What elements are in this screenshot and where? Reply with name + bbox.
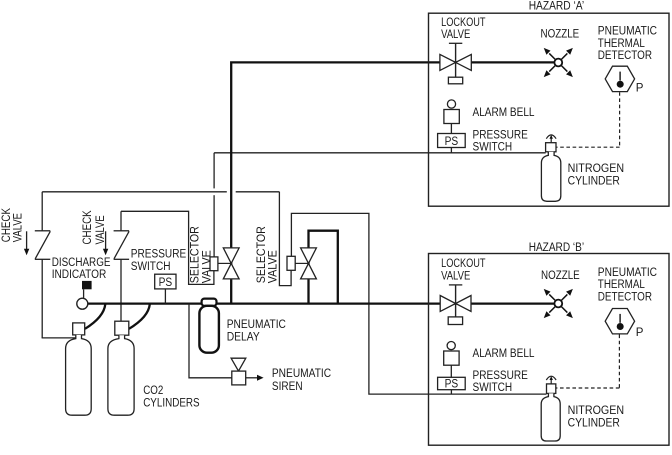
svg-text:THERMAL: THERMAL	[598, 38, 646, 50]
svg-text:ALARM BELL: ALARM BELL	[473, 348, 536, 360]
svg-text:P: P	[636, 327, 644, 339]
alarm bell B	[447, 342, 455, 350]
svg-text:HAZARD ‘A’: HAZARD ‘A’	[529, 0, 584, 12]
wire PS A stem	[450, 148, 452, 153]
wire bell A to PS A	[450, 124, 452, 134]
selector valve 1 actuator	[210, 257, 218, 271]
svg-text:VALVE: VALVE	[12, 213, 24, 242]
lockout valve B stem	[455, 285, 457, 317]
svg-text:PNEUMATIC: PNEUMATIC	[598, 26, 657, 38]
pipe main manifold y=303.6	[88, 302, 555, 304]
svg-text:DETECTOR: DETECTOR	[598, 50, 652, 62]
svg-text:DISCHARGE: DISCHARGE	[52, 257, 111, 269]
svg-text:SIREN: SIREN	[272, 381, 303, 393]
wire top header line y=192 (check valve 1 to selector valve 2 pilot, with hop gaps)	[42, 191, 227, 193]
lockout valve A stem	[455, 43, 457, 77]
svg-text:PRESSURE: PRESSURE	[473, 130, 529, 142]
nitrogen cylinder B release arrow	[546, 376, 556, 384]
svg-text:CYLINDER: CYLINDER	[568, 175, 620, 187]
thermal detector A	[605, 66, 634, 91]
svg-text:NITROGEN: NITROGEN	[568, 163, 625, 175]
check valve 1	[35, 231, 51, 259]
lockout valve A bowtie	[440, 54, 456, 70]
nitrogen cylinder A valve	[546, 143, 556, 152]
lockout valve B stem T-bar	[449, 284, 462, 286]
wire siren branch	[189, 304, 232, 378]
svg-text:NITROGEN: NITROGEN	[568, 405, 625, 417]
svg-text:PNEUMATIC: PNEUMATIC	[272, 368, 331, 380]
siren output arrow	[246, 377, 258, 379]
wire pilot loop from check valve 2 to selector valve 1 actuator	[121, 211, 214, 284]
flow arrow 2	[103, 231, 108, 255]
svg-text:PS: PS	[159, 277, 173, 289]
svg-text:DETECTOR: DETECTOR	[598, 291, 652, 303]
pneumatic siren horn	[231, 358, 246, 371]
flow arrow 1	[24, 231, 29, 255]
svg-text:ALARM BELL: ALARM BELL	[473, 107, 536, 119]
pressure switch PS (manifold)	[155, 274, 176, 289]
discharge indicator flag	[82, 281, 92, 289]
wire pilot line 2 (hazard B pressure switch line)	[291, 213, 546, 394]
svg-text:SWITCH: SWITCH	[473, 382, 513, 394]
svg-text:DELAY: DELAY	[227, 332, 260, 344]
svg-text:THERMAL: THERMAL	[598, 279, 646, 291]
selector valve 2 actuator	[287, 256, 295, 270]
svg-text:VALVE: VALVE	[268, 250, 280, 283]
nitrogen cylinder B valve	[547, 384, 556, 394]
svg-text:HAZARD ‘B’: HAZARD ‘B’	[529, 242, 584, 254]
pipe selector valve 2 riser to hazard B	[309, 231, 338, 304]
svg-text:VALVE: VALVE	[95, 215, 107, 244]
nitrogen cylinder A release arrow	[546, 135, 556, 143]
pigtail CO2 cylinder 1	[85, 304, 105, 329]
wire PS stem	[164, 289, 166, 304]
enclosure HAZARD 'A'	[429, 13, 670, 206]
svg-text:PS: PS	[445, 136, 459, 148]
svg-text:LOCKOUT: LOCKOUT	[441, 258, 485, 270]
nozzle A	[542, 46, 575, 79]
nitrogen cylinder B body	[541, 393, 560, 441]
pressure switch PS A	[438, 134, 466, 148]
CO2 cylinder 1 body	[66, 335, 92, 415]
enclosure HAZARD 'B'	[429, 254, 670, 446]
pneumatic delay body	[199, 306, 219, 353]
pressure switch PS B	[438, 377, 466, 389]
wire check valve 1 drop	[41, 192, 43, 231]
pigtail CO2 cylinder 2	[129, 304, 150, 329]
svg-text:PRESSURE: PRESSURE	[131, 248, 187, 260]
svg-text:CHECK: CHECK	[82, 210, 94, 244]
lockout valve A stem T-bar	[449, 42, 462, 44]
pneumatic delay cap	[202, 299, 217, 306]
dashed pilot tube detector B to nitrogen valve	[618, 335, 620, 389]
discharge indicator bulb	[77, 298, 88, 309]
svg-text:CYLINDER: CYLINDER	[568, 418, 620, 430]
svg-text:PNEUMATIC: PNEUMATIC	[598, 267, 657, 279]
svg-text:VALVE: VALVE	[441, 29, 470, 41]
pneumatic siren body	[232, 371, 246, 385]
check valve 2	[114, 231, 130, 259]
wire pilot line 1 (hazard A pressure switch line)	[214, 152, 546, 154]
lockout valve B operator box	[448, 317, 462, 325]
svg-text:SWITCH: SWITCH	[473, 142, 513, 154]
thermal detector B	[605, 309, 634, 334]
nitrogen cylinder A body	[541, 152, 560, 202]
svg-text:PRESSURE: PRESSURE	[473, 370, 529, 382]
nozzle B	[542, 287, 575, 320]
svg-text:PNEUMATIC: PNEUMATIC	[227, 319, 286, 331]
wire PS B stem	[450, 390, 452, 394]
svg-text:NOZZLE: NOZZLE	[541, 29, 580, 41]
alarm bell A	[447, 100, 455, 108]
svg-text:PS: PS	[445, 378, 459, 390]
svg-text:CO2: CO2	[143, 385, 163, 397]
selector valve SV2	[301, 248, 317, 264]
wire check valve 2 drop to CO2 cylinder 2	[120, 211, 122, 231]
svg-text:CYLINDERS: CYLINDERS	[143, 397, 200, 409]
pipe selector valve 1 riser to hazard A	[231, 62, 554, 303]
svg-text:VALVE: VALVE	[441, 270, 470, 282]
svg-text:CHECK: CHECK	[1, 208, 13, 242]
svg-text:NOZZLE: NOZZLE	[541, 270, 580, 282]
svg-text:SWITCH: SWITCH	[131, 261, 171, 273]
wire selector valve 2 actuator bottom loop	[279, 192, 291, 286]
selector valve SV1	[223, 248, 239, 264]
svg-text:INDICATOR: INDICATOR	[52, 269, 107, 281]
lockout valve B bowtie	[440, 296, 455, 312]
wire bell B to PS B	[450, 365, 452, 377]
CO2 cylinder 2 body	[108, 335, 134, 415]
svg-text:P: P	[636, 82, 644, 94]
svg-text:SELECTOR: SELECTOR	[190, 226, 202, 283]
svg-text:LOCKOUT: LOCKOUT	[441, 17, 485, 29]
CO2 cylinder 1 valve	[73, 323, 85, 335]
svg-text:SELECTOR: SELECTOR	[256, 226, 268, 283]
CO2 cylinder 2 valve	[115, 321, 129, 335]
svg-text:VALVE: VALVE	[201, 250, 213, 283]
wire discharge indicator stem	[83, 289, 85, 298]
dashed pilot tube detector A to nitrogen valve	[619, 92, 621, 147]
lockout valve A operator box	[448, 77, 462, 84]
